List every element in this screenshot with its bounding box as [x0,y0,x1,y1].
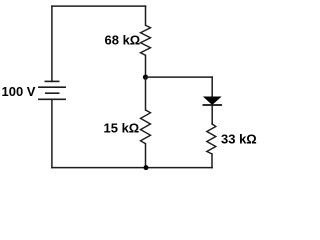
wire: bottom rail [52,167,212,169]
battery BT1 100 V: top short plate [45,80,60,82]
wire: diode branch vertical down to diode D1 anode [211,77,213,97]
wire: resistor R2 bottom to bottom rail [145,144,147,168]
wire: top rail down to resistor R1 [145,6,147,25]
diode D1 triangle (anode) [204,97,221,105]
wire: diode D1 cathode to resistor R3 [211,105,213,124]
wire: node A to diode branch (middle horizontal) [146,76,213,78]
wire: node A down to resistor R2 [145,77,147,110]
svg-text:100 V: 100 V [2,84,36,99]
diode D1 cathode bar [203,104,223,106]
wire: battery bottom terminal down to bottom-left corner [51,99,53,167]
node B junction dot on bottom rail [144,165,149,170]
svg-text:15 kΩ: 15 kΩ [104,120,140,135]
battery BT1: long plate 2 [38,98,66,100]
resistor R1 68 kOhm zigzag [141,25,151,55]
battery BT1: long plate 1 [38,86,66,88]
svg-text:68 kΩ: 68 kΩ [105,32,141,47]
wire: left branch, battery top terminal up to top-left corner [51,6,53,81]
resistor R2 15 kOhm zigzag [141,110,151,144]
svg-text:33 kΩ: 33 kΩ [221,131,257,146]
resistor R3 33 kOhm zigzag [207,124,216,154]
wire: resistor R3 bottom to bottom rail [211,154,213,168]
wire: resistor R1 bottom to node A [145,55,147,77]
battery BT1: short plate 2 [45,92,60,94]
node A junction dot [143,75,148,80]
wire: top rail [52,5,146,7]
